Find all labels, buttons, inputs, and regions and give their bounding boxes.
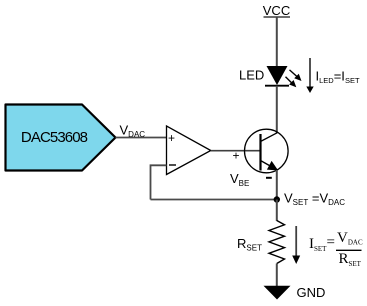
- svg-text:VCC: VCC: [263, 3, 290, 18]
- svg-text:=: =: [327, 235, 335, 251]
- node VSET junction dot: [274, 196, 280, 202]
- LED D1: [265, 66, 289, 86]
- wire LED cathode to transistor collector: [276, 86, 278, 133]
- svg-text:DAC53608: DAC53608: [21, 129, 88, 146]
- formula ISET = VDAC / RSET: [309, 230, 363, 268]
- wire VCC to LED anode: [276, 18, 278, 67]
- LED emission arrow 1: [290, 70, 302, 81]
- svg-text:LED: LED: [239, 68, 264, 83]
- svg-text:+: +: [233, 149, 240, 163]
- transistor Q1: [244, 129, 288, 173]
- svg-text:+: +: [168, 131, 175, 145]
- wire node to resistor: [276, 200, 278, 222]
- op-amp U1: [167, 126, 211, 175]
- LED emission arrow 2: [286, 77, 297, 87]
- svg-text:GND: GND: [297, 285, 326, 300]
- resistor RSET: [269, 221, 285, 264]
- DAC53608 block: [6, 105, 116, 171]
- wire transistor emitter down to VSET node: [276, 170, 278, 200]
- wire op-amp output to transistor base: [211, 150, 261, 152]
- VCC underline bar: [264, 16, 291, 18]
- wire resistor to ground: [276, 264, 278, 287]
- wire feedback bottom to VSET node: [151, 199, 278, 201]
- wire DAC output to op-amp + input: [116, 137, 167, 139]
- current arrow ISET: [292, 226, 300, 264]
- feedback wire from node to op-amp - input: [151, 165, 167, 199]
- ground: [264, 286, 291, 300]
- label - (VBE): [266, 177, 272, 179]
- current arrow ILED: [306, 58, 313, 93]
